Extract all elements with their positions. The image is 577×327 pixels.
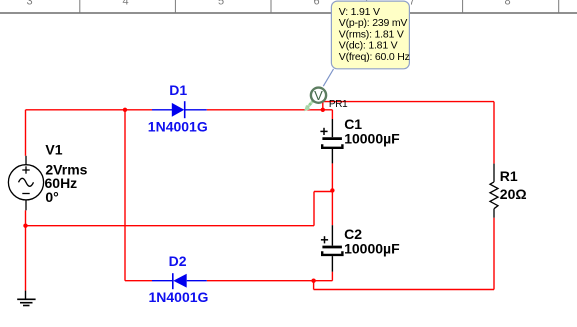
- wire probe riser: [322, 102, 324, 110]
- wire V1 bottom vertical to ground: [25, 210, 27, 290]
- wire C2 bottom stub: [331, 272, 333, 281]
- wire D2 cathode-side to C2 bottom: [207, 280, 333, 282]
- source V1: [8, 156, 43, 211]
- svg-text:R1: R1: [500, 168, 518, 184]
- svg-text:V: V: [314, 88, 323, 103]
- probe PR1 arrow: [304, 100, 313, 111]
- wire left branch vertical x=125: [124, 110, 126, 281]
- svg-text:4: 4: [122, 0, 128, 8]
- svg-text:10000µF: 10000µF: [344, 131, 400, 147]
- probe PR1 pointer line to tooltip: [323, 69, 333, 86]
- wire C1 bottom to C2 top: [331, 163, 333, 225]
- junction node at D1 branch: [123, 108, 127, 112]
- svg-text:V1: V1: [45, 142, 62, 158]
- svg-text:20Ω: 20Ω: [500, 186, 527, 202]
- ruler: [0, 0, 577, 13]
- svg-text:V(freq): 60.0 Hz: V(freq): 60.0 Hz: [339, 51, 410, 63]
- svg-text:V(rms): 1.81 V: V(rms): 1.81 V: [339, 28, 404, 40]
- wire R1 top vertical: [493, 102, 495, 164]
- wire R1 bottom vertical: [493, 218, 495, 290]
- svg-text:6: 6: [313, 0, 319, 8]
- svg-text:PR1: PR1: [329, 99, 348, 110]
- wire middle horizontal: [26, 225, 315, 227]
- junction node at V1 bottom: [23, 224, 27, 228]
- capacitor C2: [321, 225, 343, 272]
- svg-text:3: 3: [26, 0, 32, 8]
- svg-text:5: 5: [218, 0, 224, 8]
- junction node at PR1: [321, 108, 325, 112]
- svg-text:10000µF: 10000µF: [344, 241, 400, 257]
- svg-text:V(p-p): 239 mV: V(p-p): 239 mV: [339, 17, 408, 29]
- wire C1 top stub: [331, 110, 333, 119]
- svg-text:1N4001G: 1N4001G: [149, 289, 209, 305]
- tooltip measurement readout: [331, 1, 409, 69]
- wire bottom jog vertical: [313, 281, 315, 290]
- resistor R1: [490, 164, 498, 218]
- junction node at C1-C2 midpoint: [330, 188, 334, 192]
- svg-text:D2: D2: [169, 253, 187, 269]
- wire left vertical V1 top: [25, 110, 27, 156]
- wire top horizontal to R1: [323, 101, 494, 103]
- svg-text:D1: D1: [169, 82, 187, 98]
- diode D2: [152, 273, 207, 289]
- svg-text:V(dc): 1.81 V: V(dc): 1.81 V: [339, 40, 398, 52]
- wire middle jog horizontal to C1-C2 midpoint: [314, 191, 332, 193]
- svg-text:0°: 0°: [45, 189, 58, 205]
- wire middle jog vertical: [313, 192, 315, 226]
- svg-text:V: 1.91 V: V: 1.91 V: [339, 6, 380, 18]
- ground: [17, 291, 35, 306]
- wire D1 cathode to node PR1: [207, 109, 333, 111]
- capacitor C1: [320, 119, 342, 163]
- svg-text:8: 8: [504, 0, 510, 8]
- wire bottom horizontal to R1: [314, 289, 494, 291]
- wire D2 left horizontal: [125, 280, 152, 282]
- diode D1: [152, 101, 207, 118]
- svg-text:1N4001G: 1N4001G: [148, 118, 208, 134]
- junction node at C2 bottom: [311, 279, 315, 283]
- probe PR1: [311, 88, 326, 103]
- wire top-left horizontal V1 to D1: [26, 109, 153, 111]
